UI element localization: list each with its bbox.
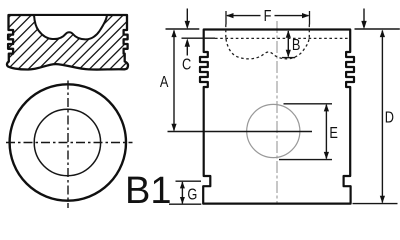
top reference extension line (left) bbox=[166, 28, 200, 30]
svg-text:A: A bbox=[160, 74, 169, 92]
label G bbox=[187, 186, 197, 204]
bottom extension line (right) bbox=[353, 203, 398, 205]
label E bbox=[329, 125, 338, 143]
projection dotted line right bowl rim bbox=[308, 25, 310, 39]
dimension B line with arrows bbox=[282, 30, 295, 57]
side view: vertical centerline bbox=[276, 21, 278, 204]
top reference extension line (right) bbox=[355, 28, 400, 30]
dimension F line with ticks and arrows bbox=[226, 11, 310, 25]
label B bbox=[292, 37, 301, 55]
dimension C top arrow (points down at crown) bbox=[185, 9, 190, 30]
cross-section outline with ring grooves bbox=[7, 15, 128, 70]
datum down arrow at crown right bbox=[361, 9, 366, 30]
dimension C lower extension line bbox=[182, 37, 216, 39]
side view: pin bore circle bbox=[247, 104, 300, 157]
hidden line: combustion bowl profile (dashed) bbox=[226, 39, 309, 59]
hatching of cross-section bbox=[0, 11, 188, 74]
hidden line: bowl rim across piston (dashed) bbox=[215, 37, 350, 39]
side view: piston outline with ring grooves and skirt notches bbox=[200, 30, 354, 204]
piston top view circle (bottom-left) bbox=[10, 84, 126, 200]
vertical centerline of top view bbox=[67, 81, 69, 209]
dimension A line with arrows bbox=[171, 30, 176, 132]
svg-text:B1: B1 bbox=[125, 170, 171, 212]
inner bore circle bbox=[34, 109, 100, 175]
label F bbox=[264, 8, 272, 26]
label C bbox=[182, 56, 191, 74]
svg-text:B: B bbox=[292, 37, 301, 55]
svg-text:F: F bbox=[264, 8, 272, 26]
label D bbox=[385, 109, 394, 127]
svg-text:E: E bbox=[329, 125, 338, 143]
dimension D line with arrows bbox=[380, 30, 385, 204]
projection dotted line left bowl rim bbox=[225, 25, 227, 39]
side view: pin axis horizontal line bbox=[168, 131, 313, 133]
dimension E line with arrows bbox=[324, 104, 329, 159]
dimension E extension lines bbox=[284, 103, 333, 105]
combustion bowl profile in cross-section bbox=[34, 15, 107, 39]
dimension C bottom arrow (points up) bbox=[185, 38, 190, 55]
svg-text:G: G bbox=[187, 186, 197, 204]
dimension G line with arrows bbox=[180, 181, 185, 204]
dimension G extension lines bbox=[176, 180, 202, 182]
horizontal centerline of top view bbox=[6, 142, 133, 144]
piston cross-section view (top-left) bbox=[7, 15, 128, 70]
svg-text:C: C bbox=[182, 56, 191, 74]
svg-text:D: D bbox=[385, 109, 394, 127]
label A bbox=[160, 74, 169, 92]
